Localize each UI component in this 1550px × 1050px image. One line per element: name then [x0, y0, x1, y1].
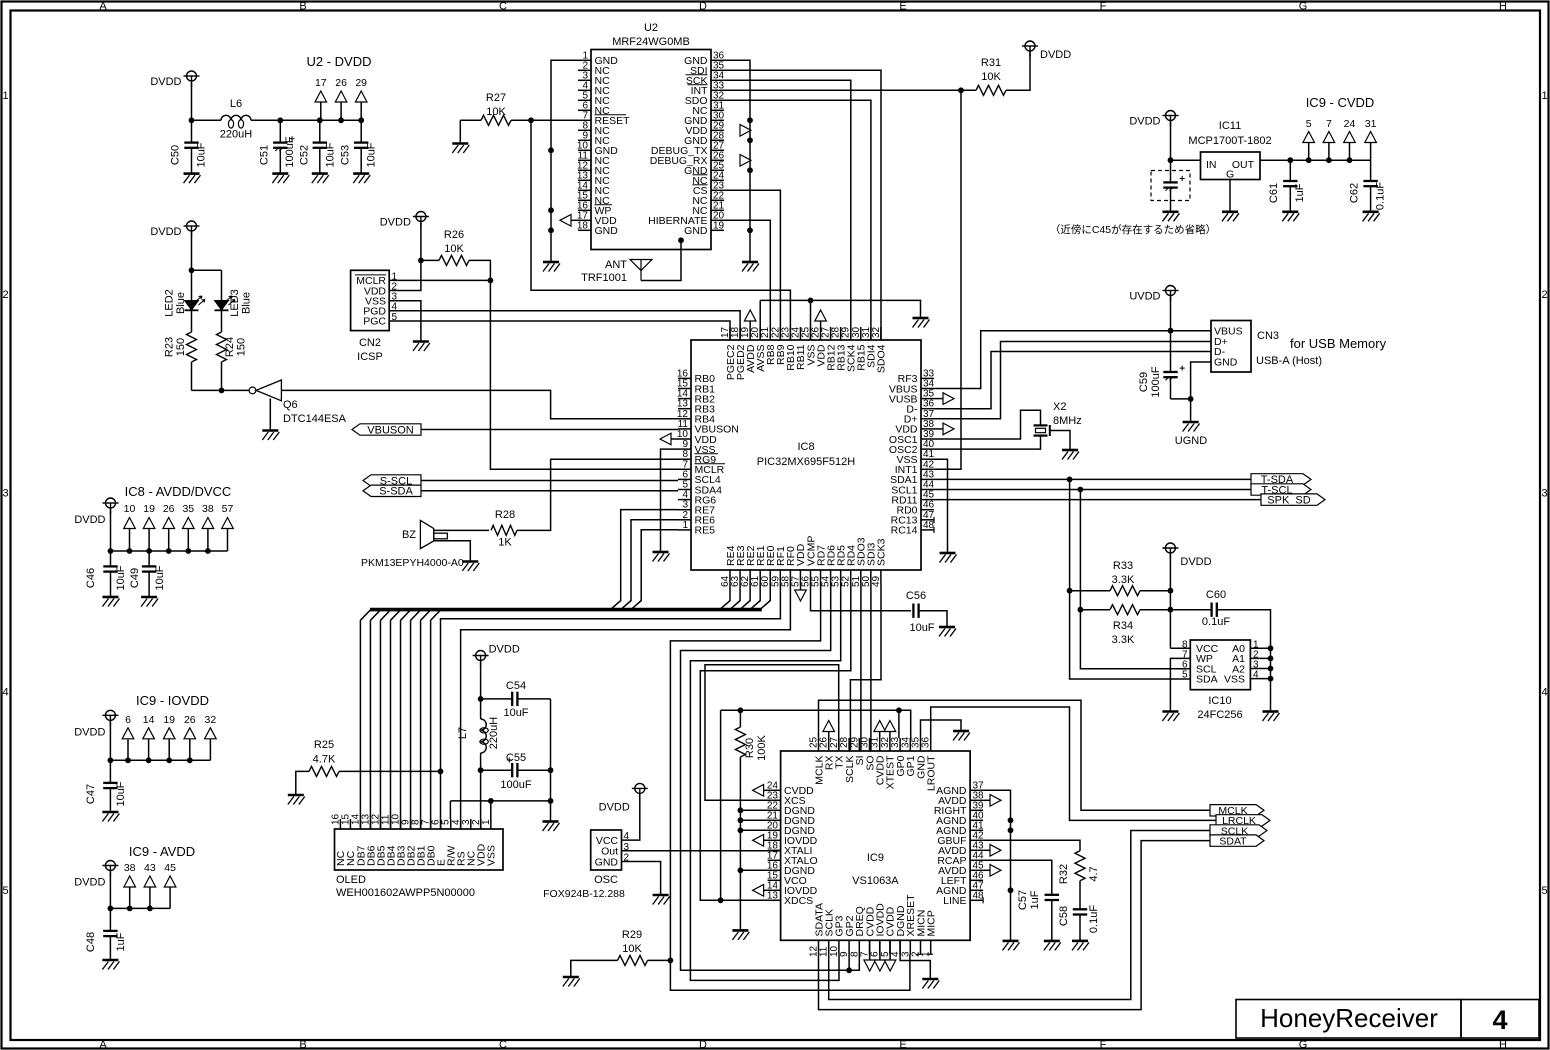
IC8 pin 8 RG9 [678, 458, 691, 460]
IC8 pin 52 RD4 [850, 570, 852, 583]
svg-text:DVDD: DVDD [74, 877, 105, 889]
wire [191, 232, 193, 270]
svg-text:R26: R26 [444, 229, 464, 241]
power DVDD [184, 71, 200, 87]
svg-text:E: E [899, 1, 906, 13]
wire CN2 VSS to ground [389, 301, 421, 342]
IC8 pin 19 AVDD [749, 327, 751, 340]
svg-text:IC9 - AVDD: IC9 - AVDD [129, 844, 195, 859]
svg-text:DVDD: DVDD [1180, 556, 1211, 568]
svg-text:1: 1 [481, 819, 492, 825]
wire CN2 PGD to IC8 PGED2 [389, 311, 740, 340]
C54 C55 ground rail [550, 699, 552, 801]
svg-text:13: 13 [767, 890, 779, 901]
IC8 pin 35 VUSB [921, 398, 934, 400]
IC8 RC13 RC14 NC ticks [933, 517, 935, 523]
wire SDA riser [1070, 479, 1191, 679]
U2 pin 4 NC [578, 89, 591, 91]
U2 pin17 VDD arrow [560, 215, 571, 227]
svg-text:HoneyReceiver: HoneyReceiver [1260, 1003, 1438, 1033]
svg-text:32: 32 [205, 714, 217, 726]
net label S-SDA [363, 485, 421, 496]
ground [543, 262, 560, 272]
wire [1170, 297, 1172, 331]
svg-text:1: 1 [2, 90, 8, 102]
wire RD5 staircase to GP3 [690, 583, 840, 980]
IC8 pin 36 D- [921, 408, 934, 410]
power DVDD [1163, 111, 1179, 127]
svg-text:Blue: Blue [241, 292, 253, 314]
svg-text:LINE: LINE [943, 895, 966, 907]
wire RF1 to OLED E [441, 583, 781, 829]
ground [103, 597, 120, 607]
connector CN3 USB-A Host [1211, 321, 1251, 373]
wire R26 to MCLR net [469, 260, 678, 469]
svg-text:1uF: 1uF [1029, 890, 1041, 909]
IC9 pin 24 CVDD [768, 789, 781, 791]
OLED WEH001602AWPP5N00000 [335, 829, 504, 870]
svg-text:DVDD: DVDD [599, 801, 630, 813]
svg-text:B: B [299, 1039, 306, 1050]
svg-text:VS1063A: VS1063A [852, 875, 899, 887]
svg-text:WEH001602AWPP5N00000: WEH001602AWPP5N00000 [336, 887, 475, 899]
U2 pin 28 GND [711, 139, 724, 141]
IC8 VSS pin9 to ground [661, 449, 679, 552]
U2 pin 25 GND [711, 169, 724, 171]
svg-text:38: 38 [124, 862, 136, 874]
wire CN3 GND to UGND [1191, 362, 1211, 422]
IC8 pin 42 INT1 [921, 468, 934, 470]
IC8 pin 27 RB12 [830, 327, 832, 340]
crystal X2 8MHz [1034, 424, 1048, 426]
wire C56 to ground [919, 611, 947, 627]
IC8 pin38 VDD arrow [943, 423, 954, 435]
IC9 pin 21 DGND [768, 819, 781, 821]
svg-text:DVDD: DVDD [150, 226, 181, 238]
svg-text:100uF: 100uF [1150, 366, 1162, 397]
resistor R23 [191, 310, 193, 332]
svg-text:USB-A (Host): USB-A (Host) [1256, 355, 1322, 367]
IC9 pin 25 MCLK [818, 738, 820, 751]
svg-text:1: 1 [682, 520, 688, 531]
IC9 pin 23 XCS [768, 799, 781, 801]
power UVDD [1163, 286, 1179, 302]
svg-text:2: 2 [1541, 289, 1547, 301]
node junctions [189, 117, 195, 123]
IC9 pin 13 XDCS [768, 899, 781, 901]
ground [1162, 712, 1179, 722]
transistor Q6 DTC144ESA inverter [219, 388, 225, 394]
IC8 pin 57 VDD [799, 570, 801, 583]
capacitor C50 [191, 120, 193, 142]
U2 pin 12 NC [578, 169, 591, 171]
IC8 pin 55 RD7 [820, 570, 822, 583]
ground [413, 342, 430, 352]
U2 pin 24 NC [711, 179, 724, 181]
U2 pin 9 NC [578, 139, 591, 141]
svg-text:U2: U2 [644, 22, 658, 34]
power DVDD [102, 710, 118, 726]
svg-text:R29: R29 [622, 929, 642, 941]
svg-text:X2: X2 [1053, 401, 1066, 413]
IC8 pin 51 SDO3 [860, 570, 862, 583]
oscillator OSC FOX924B-12.288 [591, 830, 622, 870]
capacitor C59 [1170, 331, 1172, 372]
IC8 pin35 VUSB arrow [943, 393, 954, 405]
ground [1282, 212, 1299, 222]
power DVDD [184, 221, 200, 237]
IC10 right rail to ground [1250, 647, 1270, 649]
IC8 pin 33 RF3 [921, 377, 934, 379]
bus wire [110, 907, 170, 909]
svg-text:32: 32 [871, 326, 882, 338]
svg-text:H: H [1499, 1, 1507, 13]
svg-text:A: A [99, 1039, 107, 1050]
wire DVDD to VCC [1170, 647, 1190, 649]
IC8 pin 38 VDD [921, 428, 934, 430]
net label T-SDA [1251, 474, 1311, 485]
R/W VSS ground wire [450, 800, 550, 802]
U2 pin 7 RESET [578, 119, 591, 121]
U2 pin 26 DEBUG_RX [711, 159, 724, 161]
wire R29 right [648, 959, 671, 961]
svg-text:17: 17 [315, 77, 327, 89]
capacitor C46 [110, 551, 112, 566]
net label LRCLK [1216, 815, 1270, 826]
wire SDI3 to IC9 SO [870, 583, 872, 751]
IC9 bottom power arrows CVDD IOVDD CVDD [869, 940, 871, 960]
capacitor C58 [1079, 881, 1081, 910]
ground [913, 318, 930, 328]
U2 pin 22 NC [711, 199, 724, 201]
svg-text:L7: L7 [457, 727, 469, 739]
IC8 pin 10 VDD [678, 438, 691, 440]
IC9 pin 30 SO [869, 738, 871, 751]
capacitor C61 [1289, 160, 1291, 181]
svg-text:29: 29 [355, 77, 367, 89]
wire R27 to U2 RESET [511, 119, 578, 121]
U2 left GND rail [551, 60, 578, 262]
ground [653, 552, 670, 562]
svg-text:GND: GND [684, 225, 708, 237]
ground [939, 627, 956, 637]
ground [312, 174, 329, 184]
IC8 pin 54 RD6 [830, 570, 832, 583]
IC8 pin57 VDD down arrow [800, 583, 802, 590]
net label MCLK [1210, 805, 1264, 816]
wire R29 to ground [571, 960, 618, 977]
svg-text:FOX924B-12.288: FOX924B-12.288 [543, 888, 625, 900]
U2 pin 6 NC [578, 109, 591, 111]
IC8 pin 21 RB8 [769, 327, 771, 340]
svg-text:1K: 1K [498, 537, 512, 549]
IC8 pin26 VDD arrow [815, 310, 827, 321]
svg-text:LED2: LED2 [164, 289, 176, 317]
IC9 pin 37 AGND [970, 789, 983, 791]
ground [940, 553, 957, 563]
svg-text:DVDD: DVDD [74, 726, 105, 738]
ground [653, 895, 670, 905]
svg-text:RE5: RE5 [695, 525, 716, 537]
svg-text:R24: R24 [224, 337, 236, 357]
IC8 pin 45 RD11 [921, 499, 934, 501]
IC9 GND pin35 to ground [921, 720, 962, 738]
capacitor C53 [360, 120, 362, 142]
svg-text:SDAT: SDAT [1219, 835, 1247, 847]
svg-text:IC8: IC8 [797, 441, 814, 453]
svg-text:C57: C57 [1017, 890, 1029, 910]
svg-text:R28: R28 [495, 509, 515, 521]
svg-text:C61: C61 [1268, 183, 1280, 203]
IC8 pin 20 AVSS [759, 327, 761, 340]
svg-text:10uF: 10uF [909, 622, 934, 634]
IC8 pin 18 PGED2 [739, 327, 741, 340]
IC9 pin 3 XRESET [909, 940, 911, 954]
U2 pin 30 GND [711, 119, 724, 121]
svg-text:10K: 10K [981, 71, 1001, 83]
IC9 pin 11 SCLK [828, 940, 830, 954]
IC9 CVDD pin24 arrow [753, 785, 764, 797]
bus entries from IC8 RE0-RE4 [720, 583, 730, 610]
U2 pin26 DEBUG_RX arrow [740, 155, 751, 167]
IC8 pin 23 RB10 [789, 327, 791, 340]
svg-text:G: G [1299, 1039, 1308, 1050]
svg-text:OSC: OSC [594, 874, 618, 886]
OLED pin 12 DB5 [380, 819, 382, 829]
svg-text:F: F [1100, 1, 1107, 13]
wire SCLK label to IC9 SCLK [829, 831, 1210, 1000]
svg-text:IC8 - AVDD/DVCC: IC8 - AVDD/DVCC [125, 484, 232, 499]
IC9 pin 6 IOVDD [879, 940, 881, 954]
IC9 pin 22 DGND [768, 809, 781, 811]
wire SDA1 to T-SDA [934, 478, 1251, 480]
svg-text:R30: R30 [744, 738, 756, 758]
AVDD arrows pins 38 43 45 [990, 795, 1001, 807]
wire U2 SDI to IC8 SDO4 [724, 70, 881, 340]
IC8 pin 47 RC13 [921, 519, 934, 521]
ground [462, 562, 479, 572]
svg-text:C56: C56 [906, 590, 926, 602]
U2 pin 29 VDD [711, 129, 724, 131]
buzzer BZ PKM13EPYH4000-A0 [420, 520, 433, 548]
IC9 MICN MICP NC ticks [917, 953, 923, 955]
svg-text:3: 3 [2, 488, 8, 500]
IC9 pin 43 AVDD [970, 849, 983, 851]
ground [184, 174, 201, 184]
ground [262, 431, 279, 441]
OLED pin 10 DB3 [400, 819, 402, 829]
IC9 pin 4 DGND [899, 940, 901, 954]
wire SCL riser [1080, 490, 1190, 669]
svg-text:5: 5 [1306, 118, 1312, 130]
IC9 pin 9 GP2 [848, 940, 850, 954]
IC8 pin 48 RC14 [921, 529, 934, 531]
svg-text:2: 2 [2, 289, 8, 301]
net label T-SCL [1251, 484, 1311, 495]
ground [563, 977, 580, 987]
ground [141, 597, 158, 607]
IC9 pin 31 CVDD [879, 738, 881, 751]
capacitor omitted C45 [1170, 160, 1172, 182]
svg-text:5: 5 [2, 885, 8, 897]
U2 pin 33 INT [711, 89, 724, 91]
svg-text:38: 38 [202, 503, 214, 515]
svg-text:IC9: IC9 [867, 852, 884, 864]
U2 pin 15 NC [578, 199, 591, 201]
IC9 DGND pin4 to ground [900, 940, 930, 979]
IC9 pin 20 DGND [768, 829, 781, 831]
data bus thick wire [370, 608, 762, 612]
wire VCMP to C56 [811, 583, 912, 611]
svg-text:D: D [699, 1039, 707, 1050]
net label SCLK [1210, 825, 1267, 836]
wire [421, 480, 678, 482]
svg-text:14: 14 [143, 714, 155, 726]
svg-text:3: 3 [1541, 488, 1547, 500]
IC8 pin 3 RE7 [678, 509, 691, 511]
svg-text:GND: GND [595, 225, 619, 237]
OLED pin 4 RS [460, 819, 462, 829]
svg-text:5: 5 [1541, 885, 1547, 897]
svg-text:IC11: IC11 [1219, 120, 1241, 132]
svg-text:C59: C59 [1138, 372, 1150, 392]
IC8 pin 41 VSS [921, 458, 934, 460]
net label SDAT [1210, 835, 1264, 846]
IC8 pin10 VDD arrow [660, 433, 671, 445]
ground [1003, 941, 1020, 951]
svg-text:OUT: OUT [1232, 159, 1255, 171]
svg-text:L6: L6 [230, 98, 242, 110]
wire OSC2 to X2 [934, 436, 1041, 450]
IC8 pin 61 RE1 [759, 570, 761, 583]
IC9 pin 33 GP0 [899, 738, 901, 751]
IC8 pin 46 RD0 [921, 509, 934, 511]
svg-text:DVDD: DVDD [74, 514, 105, 526]
wire IC11 G to ground [1229, 180, 1231, 212]
IC8 pin 49 SCK3 [880, 570, 882, 583]
wire R30 to DGND rail [739, 757, 741, 930]
LED3 Blue [221, 270, 223, 300]
IC8 pin 16 RB0 [678, 377, 691, 379]
svg-text:10uF: 10uF [366, 142, 378, 167]
resistor R30 100K [739, 710, 741, 727]
svg-text:24FC256: 24FC256 [1197, 709, 1242, 721]
IC8 pin 26 VDD [820, 327, 822, 340]
svg-text:150: 150 [236, 338, 248, 356]
svg-text:4: 4 [1492, 1005, 1507, 1035]
IC9 pin 47 AGND [970, 889, 983, 891]
svg-text:IC9 - IOVDD: IC9 - IOVDD [136, 693, 209, 708]
svg-text:3.3K: 3.3K [1112, 634, 1135, 646]
svg-text:RC14: RC14 [891, 525, 918, 537]
IC9 pin 18 XTALI [768, 849, 781, 851]
svg-text:4.7: 4.7 [1088, 866, 1100, 881]
IC9 IOVDD pin19 arrow [753, 835, 764, 847]
svg-text:PKM13EPYH4000-A0: PKM13EPYH4000-A0 [361, 557, 464, 569]
IC8 pin 37 D+ [921, 418, 934, 420]
wire RD4 staircase to XDCS [700, 583, 851, 900]
svg-text:DVDD: DVDD [380, 217, 411, 229]
wire buzzer to ground [434, 541, 471, 562]
AGND rail [983, 790, 1010, 941]
capacitor C51 [279, 120, 281, 142]
IC9 pin 27 TX [838, 738, 840, 751]
wire VBUS to CN3 [934, 331, 1211, 389]
power DVDD [632, 783, 648, 799]
svg-text:10: 10 [124, 503, 136, 515]
IC8 pin 53 RD5 [840, 570, 842, 583]
U2 pin 17 VDD [578, 219, 591, 221]
U2 pin 32 SDO [711, 99, 724, 101]
capacitor C57 [1045, 895, 1059, 900]
IC8 PIC32MX695F512H [691, 340, 921, 570]
svg-text:R27: R27 [486, 92, 506, 104]
svg-text:100uF: 100uF [284, 136, 296, 167]
wire U2 INT to R31 and IC8 INT1 [724, 89, 976, 91]
svg-text:R23: R23 [164, 337, 176, 357]
wire D+ to CN3 [934, 342, 1211, 419]
IC9 VS1063A [781, 751, 971, 940]
ground [1222, 212, 1239, 222]
IC8 pin 1 RE5 [678, 529, 691, 531]
svg-text:Blue: Blue [175, 292, 187, 314]
ground UGND [1183, 422, 1200, 432]
OLED pin 9 DB2 [410, 819, 412, 829]
IC9 pin26 RX arrow [823, 721, 835, 732]
IC9 pin 39 RIGHT [970, 809, 983, 811]
svg-text:10uF: 10uF [115, 565, 127, 590]
svg-text:C52: C52 [298, 145, 310, 165]
svg-text:DVDD: DVDD [489, 644, 520, 656]
svg-text:45: 45 [164, 862, 176, 874]
ground [288, 795, 305, 805]
wire U2 CS to IC8 RB9 [724, 190, 780, 340]
IC9 pin 45 AVDD [970, 869, 983, 871]
net label S-SCL [363, 475, 421, 486]
svg-text:C62: C62 [1349, 183, 1361, 203]
svg-text:24: 24 [1344, 118, 1356, 130]
IC9 pin 41 AGND [970, 829, 983, 831]
U2 pin 2 NC [578, 69, 591, 71]
C45 dashed box [1151, 171, 1190, 201]
wire [1170, 122, 1172, 160]
wire [191, 83, 193, 121]
OLED pin 15 NC [349, 819, 351, 829]
OLED pin 14 DB7 [359, 819, 361, 829]
IC9 LINE NC tick [982, 897, 984, 903]
wire [460, 119, 481, 121]
U2 pin 27 DEBUG_TX [711, 149, 724, 151]
IC8 pin 2 RE6 [678, 519, 691, 521]
IC9 pin 34 GP1 [909, 738, 911, 751]
ground [922, 979, 939, 989]
svg-text:E: E [899, 1039, 906, 1050]
power DVDD [102, 861, 118, 877]
wire CN2 MCLR [389, 279, 490, 281]
IC8 pin 64 RE4 [729, 570, 731, 583]
svg-text:VSS: VSS [1224, 673, 1245, 685]
wire OSC Out to IC9 XTALI [622, 850, 781, 852]
svg-text:BZ: BZ [402, 529, 416, 541]
U2 pin 18 GND [578, 229, 591, 231]
svg-text:43: 43 [144, 862, 156, 874]
svg-text:UVDD: UVDD [1129, 291, 1160, 303]
IC9 pin 36 LROUT [930, 738, 932, 751]
IC9 pin 14 IOVDD [768, 889, 781, 891]
wire CN2 VDD [389, 260, 421, 290]
IC8 pin 28 RB13 [840, 327, 842, 340]
svg-text:100uF: 100uF [500, 779, 531, 791]
